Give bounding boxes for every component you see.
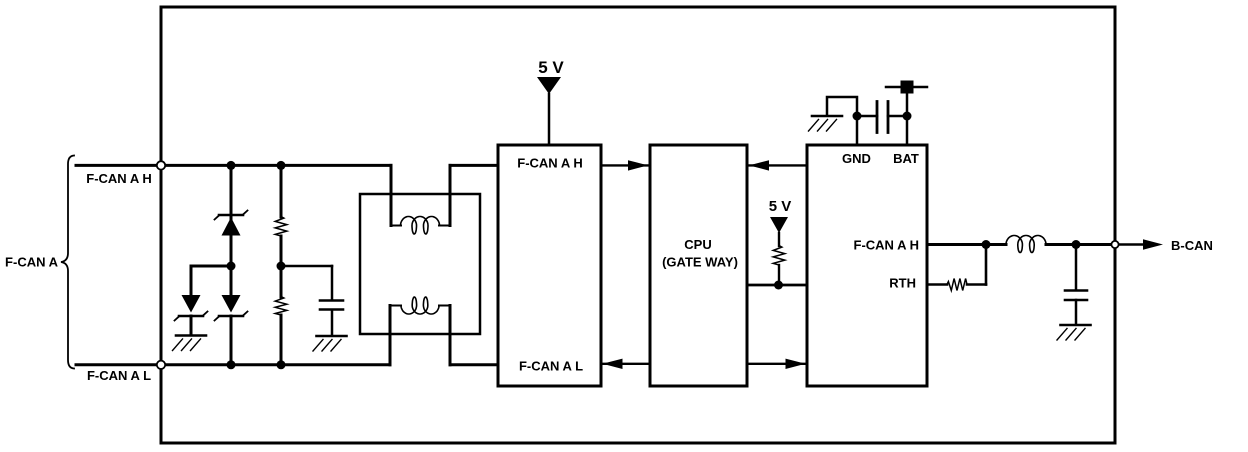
svg-text:CPU: CPU — [684, 237, 711, 252]
svg-text:F-CAN A L: F-CAN A L — [519, 359, 583, 374]
svg-text:5 V: 5 V — [769, 198, 792, 215]
svg-text:F-CAN A H: F-CAN A H — [86, 171, 151, 186]
svg-text:(GATE WAY): (GATE WAY) — [662, 255, 738, 270]
svg-text:BAT: BAT — [893, 151, 919, 166]
svg-text:GND: GND — [842, 151, 871, 166]
svg-text:F-CAN A H: F-CAN A H — [517, 156, 582, 171]
svg-text:F-CAN A H: F-CAN A H — [854, 238, 919, 253]
svg-text:5 V: 5 V — [538, 58, 564, 77]
svg-text:F-CAN A L: F-CAN A L — [87, 368, 151, 383]
svg-text:B-CAN: B-CAN — [1171, 238, 1213, 253]
svg-text:RTH: RTH — [889, 276, 916, 291]
svg-text:F-CAN A: F-CAN A — [5, 255, 59, 270]
